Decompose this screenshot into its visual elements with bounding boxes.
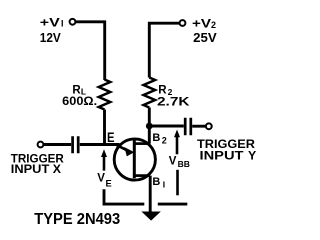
svg-text:I: I: [61, 19, 64, 29]
svg-text:V: V: [169, 155, 177, 167]
base-two lead: [134, 142, 149, 145]
terminal +V2: [180, 20, 186, 26]
svg-text:600Ω.: 600Ω.: [62, 94, 97, 108]
transistor Q1 circle: [114, 139, 155, 180]
svg-text:I: I: [163, 180, 165, 190]
wire capacitor Y to terminal: [192, 125, 206, 128]
svg-text:2.7K: 2.7K: [157, 95, 190, 109]
terminal +V1: [70, 19, 76, 25]
wire RL to node E: [103, 110, 106, 145]
wire VE to bottom wire: [104, 189, 144, 204]
wire base-two to node B2: [148, 126, 151, 144]
base-one lead: [134, 174, 149, 177]
svg-text:E: E: [107, 129, 115, 145]
svg-text:2: 2: [162, 135, 167, 145]
svg-text:BB: BB: [178, 160, 191, 169]
svg-text:INPUT: INPUT: [200, 149, 245, 163]
svg-text:+V: +V: [40, 16, 60, 30]
svg-text:TYPE 2N493: TYPE 2N493: [34, 211, 120, 228]
transistor base bar: [133, 140, 136, 178]
ground: [141, 212, 160, 221]
bottom wire right segment: [158, 203, 188, 206]
wire R2 to +V2: [149, 23, 179, 77]
svg-text:B: B: [152, 176, 160, 188]
junction dot node B2: [146, 123, 153, 130]
wire capacitor to node E: [80, 143, 120, 146]
svg-text:X: X: [53, 162, 62, 176]
capacitor C1 (trigger X): [73, 136, 79, 153]
terminal trigger Y: [206, 123, 212, 129]
svg-text:E: E: [106, 178, 112, 188]
capacitor C2 (trigger Y): [185, 118, 191, 136]
svg-text:12V: 12V: [40, 31, 62, 45]
svg-text:B: B: [152, 132, 160, 144]
resistor R2: [144, 78, 156, 108]
terminal trigger X: [38, 142, 44, 148]
VBB annotation lower line: [176, 170, 179, 196]
wire trigger X to capacitor: [44, 143, 72, 146]
svg-text:2: 2: [211, 20, 216, 30]
svg-text:Y: Y: [248, 149, 256, 163]
wire R2 to node B2: [148, 108, 151, 124]
svg-text:+V: +V: [192, 16, 211, 30]
wire +V1 to left rail: [76, 22, 105, 80]
svg-text:INPUT: INPUT: [11, 162, 50, 176]
resistor RL: [99, 80, 111, 110]
wire base-one to ground: [149, 176, 152, 212]
VBB annotation arrow: [174, 130, 180, 138]
emitter arrow of Q1: [115, 144, 128, 150]
wire node B2 to capacitor Y: [149, 125, 184, 128]
svg-text:V: V: [97, 172, 105, 184]
svg-text:25V: 25V: [193, 31, 217, 45]
VE annotation arrow: [101, 149, 107, 157]
